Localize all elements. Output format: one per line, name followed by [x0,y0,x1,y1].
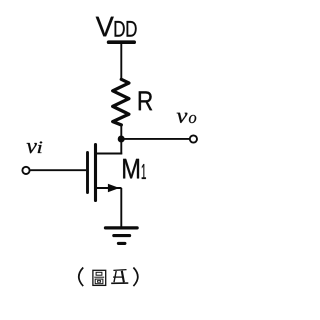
caption ( 圖 五 ) figure five [79,268,138,287]
net label vi [27,141,43,153]
value label R [139,91,152,110]
ground [106,228,138,244]
wire node to output terminal vo [121,138,189,140]
wire source down to ground [120,188,122,228]
terminal vi (open circle) [22,167,29,174]
net label VDD [96,17,137,37]
power rail VDD symbol [109,40,135,44]
wire source lead of M1 [97,187,122,189]
wire node down to drain of M1 [120,139,122,154]
node drain junction (dot) [118,136,125,143]
wire gate lead from terminal vi to gate of M1 [30,169,86,171]
wire drain lead of M1 [96,153,123,155]
wire resistor R bottom to drain node [120,125,122,140]
resistor R [113,79,129,125]
transistor M1 (NMOS, simplified symbol) [88,145,120,201]
terminal vo (open circle) [190,135,197,142]
reference label M1 [123,159,146,179]
net label vo [177,113,196,123]
wire VDD rail to resistor R top [120,43,122,80]
